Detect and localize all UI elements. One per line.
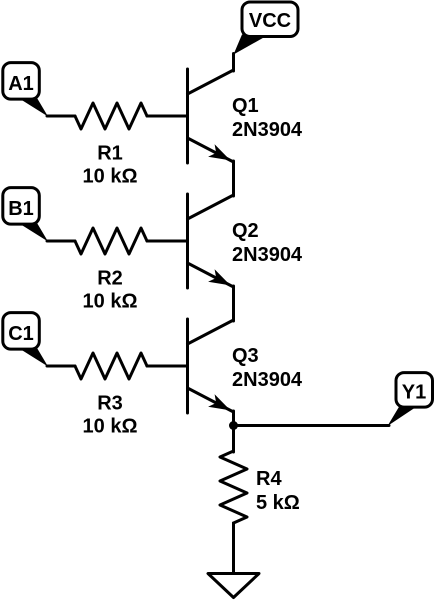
svg-text:Q2: Q2: [232, 220, 259, 242]
svg-text:VCC: VCC: [249, 10, 291, 32]
svg-text:B1: B1: [8, 198, 34, 220]
wire node to Y1: [234, 424, 390, 427]
svg-text:10 kΩ: 10 kΩ: [83, 290, 138, 312]
wire R4 to ground: [232, 523, 235, 574]
wire B1 to R2: [47, 240, 75, 243]
svg-text:C1: C1: [8, 323, 34, 345]
wire R2 to Q2 base: [147, 240, 188, 243]
wire VCC to Q1 collector: [232, 54, 235, 72]
svg-text:2N3904: 2N3904: [232, 244, 303, 266]
svg-text:R1: R1: [97, 143, 123, 165]
net flag B1: [3, 188, 48, 242]
wire A1 to R1: [47, 115, 75, 118]
wire R1 to Q1 base: [147, 115, 188, 118]
svg-text:Y1: Y1: [402, 381, 426, 403]
svg-text:R2: R2: [97, 268, 123, 290]
transistor Q3: [188, 319, 234, 413]
svg-text:R4: R4: [256, 468, 282, 490]
svg-text:Q3: Q3: [232, 345, 259, 367]
svg-text:A1: A1: [8, 73, 34, 95]
svg-text:Q1: Q1: [232, 95, 259, 117]
svg-text:R3: R3: [97, 393, 123, 415]
resistor R1: [75, 103, 147, 129]
svg-text:2N3904: 2N3904: [232, 369, 303, 391]
net flag C1: [3, 313, 48, 367]
svg-text:10 kΩ: 10 kΩ: [83, 165, 138, 187]
net flag A1: [3, 63, 48, 117]
wire Q2 emitter to Q3 collector: [232, 286, 235, 321]
resistor R2: [75, 228, 147, 254]
resistor R3: [75, 353, 147, 379]
transistor Q2: [188, 194, 234, 288]
wire C1 to R3: [47, 365, 75, 368]
wire R3 to Q3 base: [147, 365, 188, 368]
ground: [208, 574, 259, 598]
svg-text:5 kΩ: 5 kΩ: [256, 492, 300, 514]
wire Q1 emitter to Q2 collector: [232, 161, 235, 196]
net flag VCC: [234, 2, 299, 55]
svg-text:2N3904: 2N3904: [232, 119, 303, 141]
resistor R4: [220, 451, 247, 523]
node output junction: [229, 421, 238, 430]
wire Q3 emitter to output node: [232, 411, 235, 452]
transistor Q1: [188, 69, 234, 163]
net flag Y1: [388, 373, 433, 426]
svg-text:10 kΩ: 10 kΩ: [83, 415, 138, 437]
